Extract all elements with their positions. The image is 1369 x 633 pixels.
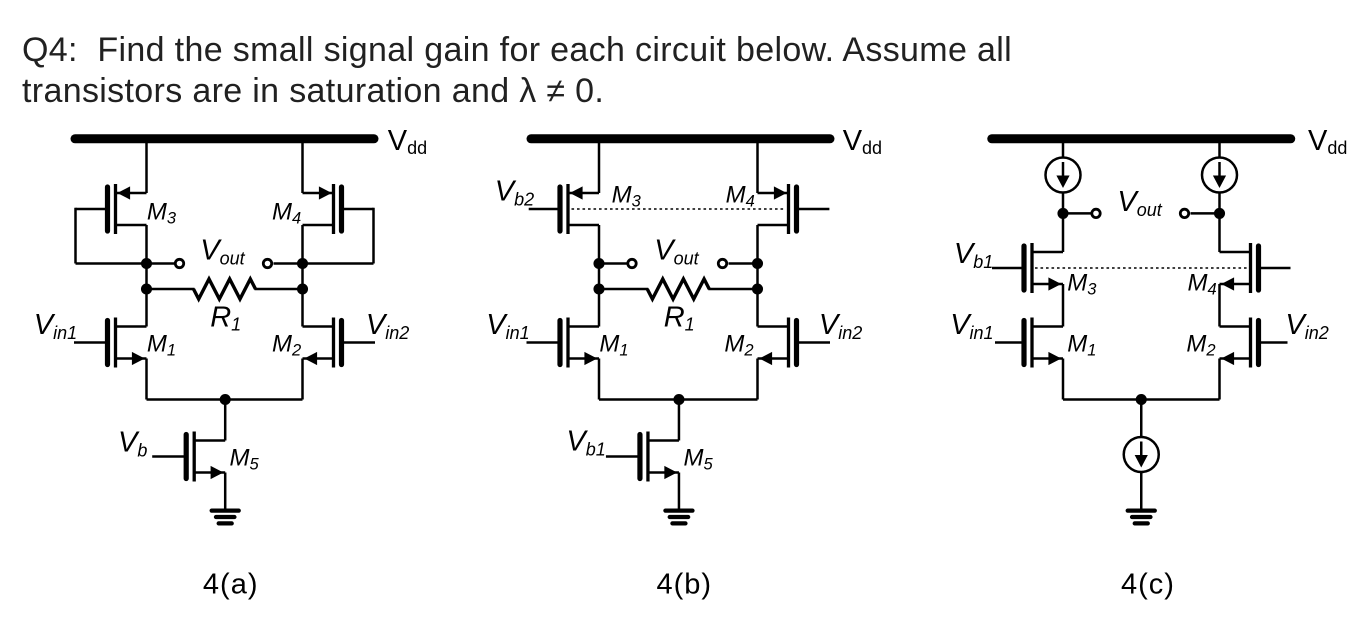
svg-text:M2: M2 bbox=[724, 331, 753, 360]
svg-text:Vin2: Vin2 bbox=[819, 309, 862, 343]
svg-text:Vin1: Vin1 bbox=[486, 309, 529, 343]
svg-text:Vdd: Vdd bbox=[843, 125, 882, 158]
svg-text:Vb1: Vb1 bbox=[566, 426, 605, 460]
svg-text:M5: M5 bbox=[230, 445, 260, 474]
svg-text:4(a): 4(a) bbox=[203, 569, 259, 601]
svg-text:Vout: Vout bbox=[654, 235, 699, 269]
svg-text:M1: M1 bbox=[599, 331, 628, 360]
svg-text:M1: M1 bbox=[147, 331, 176, 360]
svg-text:M3: M3 bbox=[612, 182, 642, 211]
svg-text:Vdd: Vdd bbox=[1308, 125, 1347, 158]
svg-text:Vout: Vout bbox=[200, 235, 245, 269]
svg-text:Vin1: Vin1 bbox=[950, 309, 993, 343]
svg-text:Vdd: Vdd bbox=[388, 125, 427, 158]
svg-text:M5: M5 bbox=[684, 445, 714, 474]
svg-text:M4: M4 bbox=[1188, 270, 1217, 299]
svg-text:Vin1: Vin1 bbox=[34, 309, 77, 343]
svg-text:Vb: Vb bbox=[118, 426, 147, 460]
svg-text:M3: M3 bbox=[1067, 270, 1097, 299]
svg-text:M4: M4 bbox=[726, 182, 755, 211]
svg-text:Vin2: Vin2 bbox=[366, 309, 409, 343]
svg-text:Vb1: Vb1 bbox=[954, 238, 993, 272]
svg-text:Vb2: Vb2 bbox=[495, 175, 534, 209]
svg-text:M3: M3 bbox=[147, 199, 177, 228]
svg-text:R1: R1 bbox=[664, 302, 695, 335]
svg-text:4(c): 4(c) bbox=[1121, 569, 1175, 601]
svg-text:Vout: Vout bbox=[1117, 186, 1162, 220]
svg-text:M4: M4 bbox=[272, 199, 301, 228]
svg-text:4(b): 4(b) bbox=[657, 569, 713, 601]
svg-text:M2: M2 bbox=[272, 331, 301, 360]
svg-text:M1: M1 bbox=[1067, 331, 1096, 360]
svg-text:R1: R1 bbox=[210, 302, 241, 335]
svg-text:M2: M2 bbox=[1186, 331, 1215, 360]
svg-text:Vin2: Vin2 bbox=[1285, 309, 1328, 343]
